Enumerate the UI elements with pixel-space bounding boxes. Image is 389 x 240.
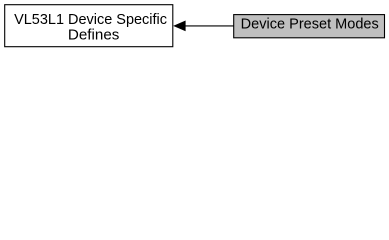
- svg-text:VL53L1 Device Specific: VL53L1 Device Specific: [14, 12, 167, 28]
- svg-text:Device Preset Modes: Device Preset Modes: [241, 17, 379, 33]
- svg-text:Defines: Defines: [68, 28, 120, 44]
